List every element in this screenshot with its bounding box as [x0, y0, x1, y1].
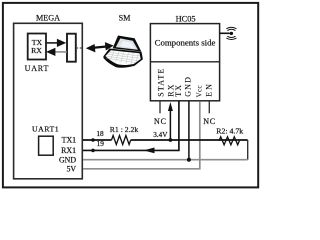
- svg-text:3.4V: 3.4V: [153, 131, 168, 139]
- svg-text:TX: TX: [174, 84, 183, 97]
- svg-text:EN: EN: [204, 82, 213, 97]
- svg-text:5V: 5V: [66, 165, 76, 174]
- svg-text:19: 19: [97, 139, 105, 148]
- svg-text:HC05: HC05: [176, 15, 196, 24]
- svg-text:R2: 4.7k: R2: 4.7k: [216, 127, 243, 136]
- svg-text:NC: NC: [154, 117, 167, 126]
- svg-text:RX1: RX1: [61, 146, 76, 155]
- svg-text:GND: GND: [184, 76, 193, 97]
- svg-text:GND: GND: [59, 155, 76, 164]
- svg-text:NC: NC: [203, 117, 216, 126]
- svg-text:UART: UART: [25, 64, 50, 73]
- svg-text:TX1: TX1: [62, 136, 77, 145]
- svg-text:SM: SM: [119, 14, 132, 23]
- svg-text:RX: RX: [31, 46, 42, 55]
- svg-text:R1 : 2.2k: R1 : 2.2k: [110, 125, 139, 134]
- svg-text:Vcc: Vcc: [195, 85, 203, 97]
- svg-text:Components side: Components side: [155, 38, 216, 48]
- svg-text:MEGA: MEGA: [36, 13, 60, 22]
- svg-text:STATE: STATE: [156, 67, 165, 96]
- svg-text:UART1: UART1: [32, 125, 59, 134]
- svg-text:18: 18: [96, 129, 104, 138]
